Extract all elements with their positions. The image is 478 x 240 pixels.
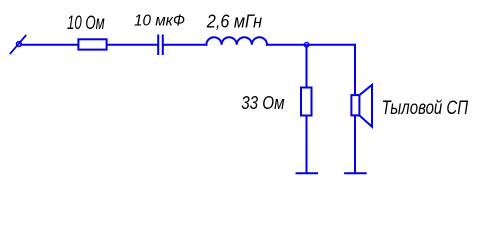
svg-text:10 Ом: 10 Ом [67,13,105,34]
svg-text:2,6 мГн: 2,6 мГн [206,11,262,32]
svg-text:10 мкФ: 10 мкФ [134,12,185,29]
wire C1 to L1 [164,44,207,46]
ground right [345,172,366,174]
wire L1 to corner [267,44,355,46]
wire terminal to R1 [21,44,78,46]
wire speaker to ground [354,115,356,172]
speaker BA1 [351,85,372,127]
capacitor C1 [158,36,163,55]
input terminal [10,36,25,54]
ground left [297,172,318,174]
resistor R2 [301,88,312,116]
inductor L1 [206,37,267,45]
svg-text:33 Ом: 33 Ом [241,93,284,113]
node junction [304,42,309,47]
svg-text:Тыловой СП: Тыловой СП [382,98,469,119]
resistor R1 [78,39,106,49]
wire R2 to ground [306,116,308,173]
wire R1 to C1 [108,44,158,46]
wire junction down to R2 [306,46,308,87]
wire corner down to speaker [354,45,356,95]
